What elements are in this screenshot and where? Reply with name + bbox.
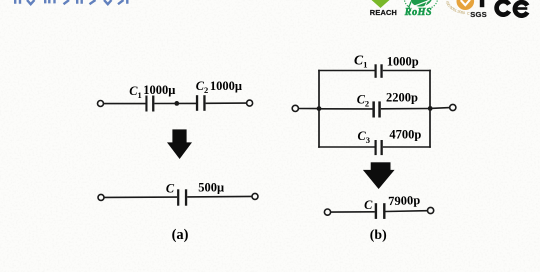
svg-text:500μ: 500μ [198, 181, 224, 195]
svg-text:1000p: 1000p [387, 54, 419, 68]
svg-text:C: C [364, 198, 373, 212]
svg-text:7900p: 7900p [388, 193, 420, 208]
svg-text:SGS: SGS [470, 10, 487, 19]
svg-text:4700p: 4700p [389, 127, 421, 141]
svg-text:1000μ: 1000μ [143, 83, 175, 97]
svg-text:(a): (a) [172, 227, 189, 243]
svg-text:REACH: REACH [370, 8, 397, 17]
svg-text:RoHS: RoHS [404, 7, 432, 18]
svg-text:2200p: 2200p [386, 90, 418, 104]
svg-text:C: C [166, 182, 175, 196]
svg-text:1000μ: 1000μ [210, 79, 242, 93]
svg-text:(b): (b) [370, 227, 387, 243]
